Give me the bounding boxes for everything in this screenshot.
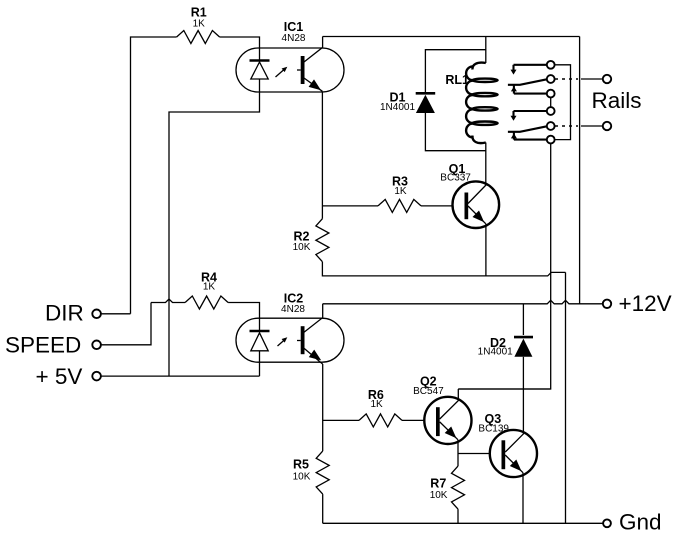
node SPEED terminal	[92, 341, 101, 350]
diode D2 triangle	[514, 339, 532, 357]
wire rails terminal 2 lead	[581, 125, 603, 127]
wire R4 left lead with hop	[151, 299, 185, 303]
resistor R7	[452, 466, 465, 509]
dashed link A2 to rails	[555, 78, 578, 80]
wire Q1 base line from IC1 emitter node	[322, 205, 378, 207]
svg-text:BC337: BC337	[440, 173, 471, 184]
resistor R3	[378, 199, 421, 212]
svg-text:BC139: BC139	[478, 423, 509, 434]
wire SPEED to R4	[101, 303, 151, 345]
wire Q1 emitter down	[485, 224, 487, 276]
transistor Q2 emitter	[440, 422, 458, 440]
wire Q2 emitter to base node	[457, 440, 459, 454]
svg-text:10K: 10K	[430, 490, 448, 501]
node +5V terminal	[92, 372, 101, 381]
resistor R6	[359, 414, 402, 427]
svg-text:4N28: 4N28	[282, 33, 306, 44]
op-amp IC1 optocoupler body	[236, 48, 344, 92]
wire IC1 emitter vertical to R2	[321, 91, 323, 218]
wire R5 bottom to ground	[322, 494, 324, 523]
svg-text:RL1: RL1	[445, 73, 469, 87]
wire ground rail	[323, 522, 603, 524]
wire Q2 collector node horizontal	[458, 388, 550, 390]
transistor Q2 circle	[424, 397, 471, 444]
IC1 LED cathode lead down	[169, 79, 260, 376]
wire R1 left vertical (DIR to R1)	[131, 37, 177, 314]
svg-text:R5: R5	[293, 458, 309, 472]
wire D2 bottom to Q3 collector node	[522, 357, 524, 389]
wire top rail from IC1 collector	[323, 36, 580, 38]
svg-text:1N4001: 1N4001	[380, 102, 415, 113]
svg-text:R1: R1	[191, 6, 207, 20]
svg-text:10K: 10K	[293, 472, 311, 483]
wire R1 right lead to IC1 LED anode	[220, 37, 260, 60]
wire R2 bottom + emitter bus with hop	[322, 262, 565, 276]
IC1 phototransistor collector	[304, 37, 323, 63]
svg-text:1K: 1K	[203, 281, 216, 292]
wire +12V feed vertical right	[579, 37, 581, 304]
wire IC2 emitter vertical	[322, 364, 324, 451]
dashed link B2 to rails	[555, 125, 578, 127]
wire coil bottom to Q1 collector	[485, 143, 487, 185]
IC1 phototransistor emitter	[304, 78, 322, 91]
wire R7 bottom to ground	[457, 509, 459, 523]
node Gnd terminal	[603, 519, 611, 527]
IC1 light arrow	[276, 68, 286, 77]
transistor Q3 collector	[505, 389, 523, 452]
wire Q3 emitter to ground	[522, 473, 524, 524]
svg-text:DIR: DIR	[45, 301, 84, 326]
node +12V terminal	[603, 300, 611, 308]
resistor R1	[177, 31, 220, 44]
IC2 light arrow	[278, 339, 286, 346]
diode D1 triangle	[416, 95, 435, 113]
svg-text:Rails: Rails	[592, 88, 642, 113]
svg-text:1N4001: 1N4001	[478, 347, 513, 358]
svg-text:+ 5V: + 5V	[36, 364, 83, 389]
transistor Q3 emitter	[505, 455, 523, 473]
svg-text:SPEED: SPEED	[5, 332, 81, 357]
svg-text:1K: 1K	[394, 186, 407, 197]
IC2 LED triangle	[251, 333, 268, 351]
resistor R2	[316, 219, 329, 262]
svg-text:IC1: IC1	[284, 20, 304, 34]
resistor R5	[316, 451, 329, 494]
wire R4 right lead to IC2 LED	[228, 303, 259, 331]
svg-text:Gnd: Gnd	[619, 510, 662, 535]
diode D2 cathode bar	[514, 336, 533, 339]
wire A1 to right vertical	[555, 65, 571, 140]
resistor R4	[185, 296, 228, 309]
transistor Q3 base bar	[502, 440, 506, 469]
svg-text:+12V: +12V	[619, 291, 672, 316]
transistor Q1 base bar	[465, 193, 469, 220]
transistor Q1 circle	[453, 181, 500, 228]
node rails terminal 2	[603, 122, 611, 130]
IC2 LED cathode bar	[250, 330, 270, 333]
wire D2 top lead	[522, 304, 524, 335]
svg-text:IC2: IC2	[284, 291, 304, 305]
wire R3 to Q1 base	[421, 205, 453, 207]
transistor Q2 base bar	[436, 407, 440, 436]
svg-text:R7: R7	[430, 477, 446, 491]
svg-text:BC547: BC547	[413, 386, 444, 397]
node DIR terminal	[92, 310, 101, 319]
wire rails terminal 1 lead	[581, 78, 603, 80]
IC2 phototransistor base stub	[297, 340, 301, 342]
wire Q3 base line	[458, 453, 490, 455]
transistor Q3 circle	[490, 430, 537, 477]
wire R6 left lead	[323, 419, 359, 421]
wire D1 bottom to coil bottom	[425, 113, 485, 151]
op-amp IC2 optocoupler body	[236, 318, 344, 362]
wire R6 to Q2 base	[402, 419, 424, 421]
transistor Q2 collector	[440, 389, 459, 419]
wire A3-B1 link	[550, 98, 552, 107]
transistor Q1 collector	[468, 185, 486, 204]
svg-text:10K: 10K	[293, 242, 311, 253]
IC2 phototransistor base bar	[301, 326, 305, 354]
wire +12V rail with hops	[323, 300, 603, 304]
IC2 LED cathode lead down	[259, 351, 261, 376]
node rails terminal 1	[603, 75, 611, 83]
wire D1 top branch	[425, 50, 485, 92]
svg-text:1K: 1K	[193, 19, 206, 30]
wire coil top feed	[485, 37, 487, 64]
IC1 LED triangle	[251, 62, 268, 79]
IC2 phototransistor collector	[304, 304, 323, 332]
IC2 phototransistor emitter	[304, 348, 323, 364]
inductor RL1 relay coil	[472, 63, 485, 70]
svg-text:4N28: 4N28	[281, 304, 305, 315]
relay contact switch B (bottom pole)	[514, 110, 547, 112]
wire B3 down to Q2 collector node	[458, 144, 550, 389]
relay contact switch A (top pole)	[514, 64, 547, 66]
wire R7 top lead	[457, 454, 459, 467]
wire bus down to Gnd (V2)	[565, 272, 567, 523]
svg-text:1K: 1K	[370, 399, 383, 410]
IC1 phototransistor base bar	[301, 56, 305, 84]
IC1 phototransistor base stub	[297, 69, 301, 71]
IC1 LED cathode bar	[250, 59, 270, 62]
diode D1 cathode bar	[416, 92, 436, 95]
wire DIR to R1 vertical	[101, 313, 131, 315]
wire +5V line to IC2 LED cathode	[101, 375, 260, 377]
transistor Q1 emitter	[468, 206, 486, 224]
